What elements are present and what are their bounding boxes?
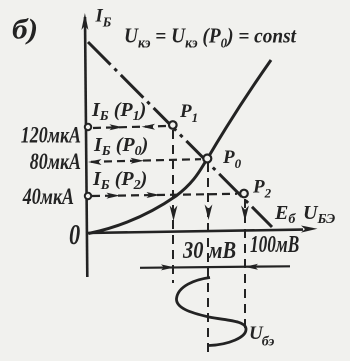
svg-text:40мкА: 40мкА — [22, 185, 74, 210]
load line (dash-dot) from axis through P1 P0 P2 to x-axis — [88, 42, 272, 227]
arrow right 2 on row3 — [147, 192, 161, 198]
node circle at 120мкА on axis — [85, 124, 91, 130]
vertical dashed line below P2 — [244, 199, 246, 331]
svg-text:80мкА: 80мкА — [30, 150, 81, 175]
arrow right on row2 — [131, 158, 145, 164]
y-axis I_Б — [85, 17, 87, 277]
svg-text:100мВ: 100мВ — [250, 230, 299, 258]
dimension arrow left (tip at right dashed line) — [245, 264, 259, 270]
30мВ dimension line — [140, 266, 290, 268]
down arrow on P2 vertical — [241, 206, 249, 222]
svg-text:б): б) — [12, 13, 38, 46]
down arrow on P0 vertical — [205, 205, 213, 221]
dimension arrow right (tip at left dashed line) — [161, 264, 175, 270]
row 120мкА dashed line to P1 — [93, 126, 167, 128]
input characteristic curve — [89, 60, 272, 234]
y-axis arrowhead — [81, 13, 88, 30]
node circle at 40мкА on axis — [85, 193, 91, 199]
point P2 — [240, 190, 248, 198]
arrow right 1 on row3 — [107, 193, 121, 199]
svg-text:120мкА: 120мкА — [21, 124, 81, 149]
x-axis — [87, 230, 303, 233]
point P1 — [169, 121, 177, 129]
svg-text:Uкэ = Uкэ (P0) = const: Uкэ = Uкэ (P0) = const — [124, 25, 297, 52]
point P0 — [203, 155, 211, 163]
arrow right on row1 — [110, 124, 124, 130]
sine wave U_бэ — [176, 278, 246, 346]
row 80мкА dashed line to P0 — [91, 159, 201, 162]
x-axis arrowhead — [301, 226, 318, 233]
down arrow on P1 vertical — [170, 206, 178, 222]
arrow left on row1 — [142, 124, 156, 130]
svg-text:30 мВ: 30 мВ — [182, 236, 236, 263]
arrow left at axis row2 — [88, 159, 102, 165]
svg-text:0: 0 — [69, 220, 80, 251]
vertical dashed line below P0 — [207, 163, 209, 354]
vertical dashed line below P1 — [172, 130, 174, 283]
row 40мкА dashed line to P2 — [92, 194, 237, 196]
